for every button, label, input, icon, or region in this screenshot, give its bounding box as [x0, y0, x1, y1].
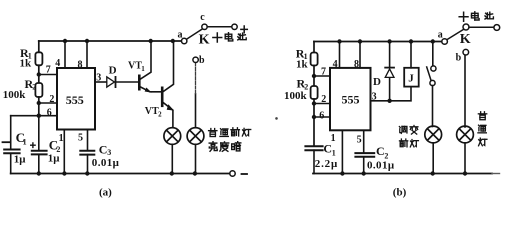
svg-text:3: 3 — [372, 91, 377, 102]
wire c to battery terminal (a) — [207, 26, 232, 28]
wire pin 4 (a) — [64, 41, 66, 68]
wire R1 bottom to R2 top (a) — [38, 65, 40, 83]
svg-text:3: 3 — [107, 148, 111, 157]
wire pin 1 to rail (b) — [341, 130, 343, 173]
wire C1 bottom lead (b) — [313, 150, 315, 173]
svg-text:c: c — [200, 12, 205, 23]
wire bottom ground rail (a) — [11, 173, 230, 175]
switch K blade (a) — [187, 29, 203, 39]
wire diode lower lead (b) — [389, 77, 391, 100]
wire diode upper lead to rail (b) — [389, 42, 391, 68]
svg-text:2: 2 — [158, 110, 162, 118]
wire lamp2 bottom to rail (b) — [464, 143, 466, 174]
label lamp text du (a) — [220, 142, 229, 151]
svg-text:1μ: 1μ — [14, 154, 26, 166]
wire pin 7 stub (b) — [314, 75, 330, 77]
label lamp text pu (b) — [478, 112, 486, 120]
label lamp text pu (a) — [209, 129, 217, 137]
label minus of C1 (a) — [3, 141, 10, 143]
svg-text:b: b — [456, 53, 462, 64]
wire pin 5 to C2 (b) — [363, 130, 365, 152]
wire: top supply rail (a) — [39, 40, 182, 42]
label battery char dian (b) — [472, 12, 480, 20]
label lamp text liang (a) — [209, 142, 217, 152]
wire lamp2 up to terminal b (b) — [464, 55, 466, 127]
node contact on rail (b) — [431, 39, 435, 43]
relay contact blade (b) — [427, 67, 431, 80]
node lamp2 on rail (b) — [463, 171, 467, 175]
wire rail corner to R1 top (b) — [313, 42, 315, 53]
node diode on rail (b) — [387, 39, 391, 43]
switch K terminal c circle (a) — [202, 24, 207, 29]
node pin8 on rail (a) — [85, 39, 89, 43]
svg-text:2: 2 — [49, 94, 54, 105]
svg-text:C: C — [376, 144, 385, 158]
switch K blade (b) — [447, 30, 463, 40]
switch K top circle (b) — [463, 24, 469, 30]
wire pin 2 stub (a) — [39, 102, 57, 104]
label lamp text bian (b) — [410, 125, 418, 134]
wire contact to lamp1 (b) — [432, 86, 434, 127]
node J on rail (b) — [409, 39, 413, 43]
svg-text:a: a — [178, 29, 183, 40]
node pin4 on rail (b) — [337, 39, 341, 43]
relay contact bottom circle (b) — [430, 80, 435, 85]
wire lamp2 bottom to rail (a) — [195, 144, 197, 173]
svg-text:2: 2 — [32, 83, 36, 92]
svg-text:1μ: 1μ — [48, 153, 61, 165]
label lamp text deng (a) — [242, 128, 250, 136]
svg-text:1: 1 — [59, 133, 64, 144]
wire relay contact top lead (b) — [432, 42, 434, 66]
svg-text:4: 4 — [333, 59, 338, 70]
wire C2 bottom lead (a) — [38, 154, 40, 173]
label lamp text tong (a) — [220, 129, 228, 137]
wire pin 1 to ground rail (a) — [63, 130, 65, 174]
capacitor C1 (a) — [4, 150, 19, 154]
label battery char chi (b) — [485, 12, 493, 19]
wire pin 4 (b) — [339, 42, 341, 68]
transistor Q2 VT2 (a) — [162, 41, 173, 128]
label lamp text qian (a) — [231, 128, 240, 136]
terminal b circle (a) — [193, 57, 198, 62]
svg-text:5: 5 — [357, 134, 362, 145]
node pin1 on rail (a) — [62, 171, 66, 175]
node lamp1 on rail (b) — [431, 171, 435, 175]
svg-text:(a): (a) — [99, 187, 112, 199]
label lamp text qian (b) — [399, 139, 407, 147]
node: pin 6 junction (a) — [37, 114, 41, 118]
wire C1 bottom lead to rail (a) — [10, 153, 12, 173]
capacitor C2 (b) — [355, 153, 374, 157]
node C2 on rail (b) — [362, 171, 366, 175]
svg-text:VT: VT — [128, 60, 142, 71]
resistor R1 (a) — [35, 52, 42, 65]
wire pin 2 stub (b) — [314, 103, 330, 105]
node: junction R1/R2/pin7 (a) — [37, 72, 41, 76]
svg-text:555: 555 — [66, 93, 84, 107]
resistor R1 (b) — [311, 53, 318, 66]
wire to battery terminal (b) — [469, 26, 494, 28]
wire J top lead (b) — [410, 42, 412, 68]
op-amp/timer U1 555 box (a) — [57, 68, 95, 130]
wire lamp2 up to terminal b (a) — [195, 94, 197, 128]
wire pin 6 stub (b) — [314, 116, 330, 118]
svg-text:555: 555 — [342, 92, 360, 106]
label battery char chi (a) — [238, 33, 246, 40]
svg-text:D: D — [109, 64, 117, 76]
lamp L2 headlight (a) — [187, 128, 204, 145]
label lamp text deng2 (b) — [479, 138, 487, 146]
ink speck artifact — [275, 117, 278, 120]
label minus terminal (a) — [242, 173, 248, 175]
capacitor C2 (a) — [32, 151, 47, 155]
node pin2 junction (b) — [312, 101, 316, 105]
wire C1 top lead (a) — [10, 116, 12, 149]
wire: top supply rail (b) — [314, 41, 442, 43]
svg-text:1: 1 — [141, 65, 145, 73]
node lamp2 on rail (a) — [193, 171, 197, 175]
lamp L1 modulated headlight (b) — [425, 126, 442, 143]
svg-text:0.01μ: 0.01μ — [92, 157, 120, 169]
wire diode to VT1 base (a) — [116, 81, 139, 83]
label plus (a) — [241, 26, 247, 33]
label lamp text an (a) — [232, 142, 241, 151]
svg-text:8: 8 — [354, 59, 359, 70]
node C3 on rail (a) — [85, 171, 89, 175]
lamp L2 normal lamp (b) — [457, 126, 474, 143]
svg-text:8: 8 — [78, 59, 83, 70]
svg-text:1: 1 — [332, 149, 336, 158]
wire pin 6 line from C1 corner to box (a) — [11, 115, 57, 117]
svg-text:J: J — [408, 73, 414, 85]
svg-text:6: 6 — [47, 108, 52, 119]
wire bottom ground rail (b) — [313, 173, 492, 175]
svg-text:(b): (b) — [393, 187, 407, 199]
wire R1 to R2 (b) — [313, 66, 315, 87]
svg-text:2: 2 — [321, 94, 326, 105]
wire lamp1 bottom to rail (a) — [171, 144, 173, 173]
wire pin 3 stub and run to relay (b) — [371, 87, 412, 101]
label lamp text tong (b) — [478, 125, 486, 133]
diode D (b) — [385, 69, 394, 78]
relay coil J box (b) — [404, 68, 419, 87]
svg-text:7: 7 — [321, 67, 326, 78]
wire C2 top lead (a) — [38, 116, 40, 151]
wire lamp1 bottom to rail (b) — [432, 143, 434, 174]
wire C2 bottom lead (b) — [363, 157, 365, 174]
terminal minus circle (a) — [230, 171, 235, 176]
node VT1 collector on rail (a) — [149, 39, 153, 43]
wire R2 bottom down (b) — [313, 99, 315, 146]
node: pin 2 junction (a) — [37, 101, 41, 105]
svg-text:3: 3 — [96, 72, 101, 83]
terminal b circle (b) — [463, 49, 469, 55]
label lamp text deng (b) — [410, 140, 418, 147]
node pin6 junction (b) — [312, 115, 316, 119]
wire pin 8 (b) — [359, 42, 361, 68]
svg-text:0.01μ: 0.01μ — [367, 159, 395, 171]
node lamp1 on rail (a) — [170, 171, 174, 175]
wire R2 bottom to pin2 node (a) — [38, 97, 40, 116]
svg-text:C: C — [99, 143, 108, 157]
svg-text:D: D — [373, 76, 381, 88]
node pin4 on rail (a) — [63, 39, 67, 43]
transistor Q1 VT1 (a) — [139, 41, 161, 92]
node pin8 on rail (b) — [358, 39, 362, 43]
wire pin 8 (a) — [86, 41, 88, 68]
switch K terminal a (a) — [182, 38, 187, 43]
node pin7 junction (b) — [312, 74, 316, 78]
switch K terminal a circle (b) — [442, 39, 448, 45]
battery plus terminal circle (a) — [232, 24, 237, 29]
wire pin 5 to C3 (a) — [87, 130, 89, 151]
svg-text:100k: 100k — [284, 90, 308, 102]
resistor R2 (b) — [311, 86, 318, 99]
svg-text:5: 5 — [78, 132, 83, 143]
node diode junction (b) — [387, 99, 391, 103]
wire pin 7 stub (a) — [39, 74, 57, 76]
lamp L1 headlight (a) — [164, 128, 181, 145]
wire C3 bottom lead (a) — [87, 155, 89, 174]
svg-text:1: 1 — [331, 133, 336, 144]
capacitor C1 (b) — [305, 146, 322, 150]
node C2 on rail (a) — [37, 171, 41, 175]
svg-text:VT: VT — [145, 106, 159, 117]
label +battery text (b) — [459, 12, 468, 21]
diode D (a) — [107, 77, 115, 87]
svg-text:6: 6 — [319, 110, 324, 121]
svg-text:2.2μ: 2.2μ — [315, 158, 338, 170]
label battery char dian (a) — [225, 33, 233, 41]
svg-text:100k: 100k — [3, 89, 27, 101]
op-amp/timer U2 555 box (b) — [330, 68, 371, 130]
svg-text:b: b — [199, 55, 205, 66]
svg-text:K: K — [460, 32, 471, 47]
label +battery text (a) — [213, 33, 222, 42]
label plus of C2 (a) — [31, 143, 35, 147]
wire: rail corner down to R1 top (a) — [38, 41, 40, 52]
svg-text:K: K — [199, 32, 210, 47]
svg-text:4: 4 — [55, 58, 60, 69]
battery plus terminal circle (b) — [494, 25, 500, 31]
node VT2 collector on rail (a) — [171, 39, 175, 43]
svg-text:1k: 1k — [20, 58, 33, 70]
svg-text:1k: 1k — [296, 58, 309, 70]
capacitor C3 (a) — [80, 151, 94, 155]
node pin1 on rail (b) — [340, 171, 344, 175]
relay contact top circle (b) — [431, 66, 436, 71]
svg-text:1: 1 — [23, 138, 27, 147]
svg-text:a: a — [438, 29, 443, 40]
resistor R2 (a) — [35, 83, 42, 97]
svg-text:7: 7 — [46, 65, 51, 76]
wire pin 3 stub (a) — [95, 81, 107, 83]
label lamp text diao (b) — [399, 126, 407, 133]
